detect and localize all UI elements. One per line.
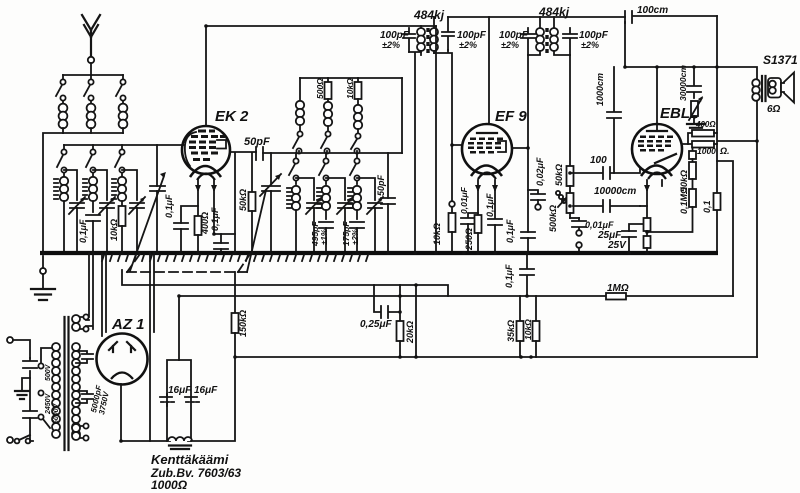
tube EBL1 envelope	[632, 124, 682, 174]
capacitor 0,1uF cathode	[164, 194, 188, 252]
resistor 10k antenna	[109, 206, 126, 252]
svg-text:250Ω: 250Ω	[464, 228, 474, 251]
svg-text:30000cm: 30000cm	[678, 65, 688, 101]
capacitor 0,01uF tone	[572, 218, 614, 252]
coil L5 with core	[83, 177, 97, 212]
resistor 400ohm fb	[682, 120, 717, 144]
EBL1 plate bar	[647, 130, 667, 132]
mains terminal top	[7, 337, 13, 343]
EBL1 grid dashes	[638, 136, 673, 152]
resistor 400ohm	[195, 206, 211, 252]
coil L9	[354, 99, 362, 133]
svg-text:6Ω: 6Ω	[767, 104, 781, 115]
capacitor mains 1	[23, 358, 37, 368]
resistor 500ohm	[315, 78, 332, 99]
switch S3a	[293, 131, 303, 153]
chassis bus	[40, 251, 718, 255]
svg-text:10000cm: 10000cm	[594, 186, 636, 197]
wire AZ1 right down	[150, 253, 154, 441]
svg-text:2450V: 2450V	[45, 392, 52, 415]
IF T1 primary coil	[417, 26, 425, 55]
wire AZ1 plate leads	[102, 253, 106, 336]
switch S4a	[289, 153, 299, 184]
capacitor mains 2	[23, 411, 37, 418]
svg-text:100: 100	[590, 155, 607, 166]
wire plate feed vertical	[435, 26, 437, 252]
svg-text:175pF: 175pF	[341, 221, 351, 246]
EBL1 cathode arc	[641, 166, 672, 177]
wire detector drop	[569, 55, 571, 166]
resistor 50k EBL1	[679, 159, 696, 192]
coil L6 with core	[112, 177, 126, 206]
resistor 50k EK2	[238, 153, 256, 252]
svg-text:0,02μF: 0,02μF	[535, 157, 545, 186]
EF9 pins	[478, 180, 495, 190]
svg-text:0,01μF: 0,01μF	[585, 220, 614, 230]
resistor 20k	[397, 285, 416, 357]
svg-text:10kΩ: 10kΩ	[523, 319, 533, 340]
svg-text:±2%: ±2%	[382, 40, 400, 50]
IF T2 primary coil	[528, 17, 544, 55]
svg-text:AZ 1: AZ 1	[111, 316, 145, 333]
mains terminal bottom	[7, 437, 13, 443]
EK2 inner grid frame	[185, 132, 196, 166]
capacitor 0,1uF EF9 cathode	[485, 190, 502, 252]
capacitor 0,1uF screen	[505, 219, 535, 252]
wire antenna top rail	[63, 74, 123, 76]
svg-text:500Ω: 500Ω	[315, 78, 325, 99]
gang line diagonal	[247, 190, 266, 272]
svg-text:0,25μF: 0,25μF	[360, 319, 392, 330]
svg-text:S1371: S1371	[763, 53, 798, 67]
wire EK2 output line	[230, 151, 256, 153]
bus hatching	[102, 255, 368, 261]
transformer filament winding top	[72, 314, 89, 331]
svg-text:150kΩ: 150kΩ	[238, 310, 248, 337]
wire EF9 grid cap drop	[488, 17, 490, 124]
coil L8	[324, 99, 332, 131]
capacitor 10000cm	[573, 186, 640, 212]
wire branch to trimmer 3	[122, 170, 137, 200]
capacitor 100cm	[625, 5, 717, 23]
EBL1 pins	[647, 180, 662, 190]
wire long line to osc section	[263, 152, 402, 154]
main tuning trimmer C7	[130, 145, 166, 271]
switch S3b	[321, 131, 331, 153]
speaker transformer core	[762, 76, 766, 101]
svg-text:0,1MΩ: 0,1MΩ	[679, 187, 689, 214]
capacitor 50pF osc	[376, 153, 395, 252]
wire line A	[122, 270, 448, 296]
wire plate to speaker vertical	[717, 161, 733, 296]
coil L10 with core	[287, 186, 300, 252]
svg-text:1000: 1000	[697, 146, 716, 156]
ground mains	[15, 378, 30, 399]
capacitor 100 coupling	[572, 155, 640, 179]
wire bottom rail to capbox	[121, 440, 167, 442]
AZ1 plates	[109, 342, 135, 352]
speaker transformer primary	[625, 67, 760, 101]
resistor 35k	[506, 296, 524, 357]
resistor 0,1 right	[702, 193, 721, 213]
svg-text:1000cm: 1000cm	[595, 73, 605, 106]
svg-text:0,1μF: 0,1μF	[210, 207, 220, 231]
EK2 top lead	[205, 26, 207, 126]
switch S1b	[84, 75, 94, 101]
EBL1 top lead	[656, 67, 658, 130]
electrolytic 16uF 1	[160, 385, 192, 406]
coil L3	[119, 101, 128, 133]
svg-text:0,1μF: 0,1μF	[504, 264, 514, 288]
svg-text:Kenttäkäämi: Kenttäkäämi	[151, 452, 229, 467]
IF T1 core	[426, 28, 429, 53]
ground EBL1	[687, 117, 705, 131]
EF9 plate bar	[477, 132, 497, 134]
wire gang node	[238, 271, 247, 273]
svg-text:400Ω: 400Ω	[200, 212, 210, 235]
EBL1 diode plate	[655, 154, 676, 163]
transformer HT secondary	[72, 343, 80, 438]
svg-text:10kΩ: 10kΩ	[432, 223, 442, 245]
glimmer box	[692, 148, 694, 152]
trimmer C2	[99, 197, 115, 252]
EF9 grid box	[498, 141, 506, 152]
coil L2	[87, 101, 96, 133]
EK2 anode box	[217, 140, 226, 149]
electrolytic 25uF	[597, 206, 647, 252]
capacitor 0,1uF below bus	[504, 253, 534, 296]
wire speaker bottom	[718, 101, 757, 357]
wire pot bottom to tone cap	[570, 217, 579, 219]
varistor	[689, 96, 703, 120]
svg-text:0,1μF: 0,1μF	[78, 219, 88, 243]
wire osc vertical	[234, 153, 236, 252]
transformer core	[65, 317, 69, 450]
osc trimmer capacitor	[260, 153, 281, 252]
capacitor 0,1uF antenna	[78, 215, 100, 252]
speaker secondary	[769, 81, 776, 88]
svg-text:35kΩ: 35kΩ	[506, 320, 516, 342]
capacitor 100pF T1 right	[442, 17, 487, 50]
svg-text:50kΩ: 50kΩ	[238, 189, 248, 211]
wire T1 secondary bottom to EF9 grid	[434, 50, 462, 145]
svg-text:1000Ω: 1000Ω	[151, 478, 188, 492]
capacitor 1000cm	[595, 67, 621, 173]
svg-text:495pF: 495pF	[310, 221, 320, 247]
svg-text:50kΩ: 50kΩ	[554, 164, 564, 186]
resistor 10k grid	[432, 201, 456, 252]
svg-text:0,1μF: 0,1μF	[164, 194, 174, 218]
IF T2 core	[545, 28, 548, 53]
svg-text:0,1μF: 0,1μF	[505, 219, 515, 243]
wire to ground leg	[43, 133, 63, 252]
svg-text:5000V: 5000V	[53, 402, 60, 424]
capacitor 5000pF a	[76, 351, 93, 363]
trimmer C4	[296, 178, 322, 252]
capacitor 0,01uF EF9	[459, 186, 478, 252]
svg-text:0,1μF: 0,1μF	[485, 193, 495, 217]
mains switch	[15, 435, 31, 443]
EBL1 cathode resistor 2	[644, 231, 651, 252]
wire line B	[179, 295, 733, 297]
coil L1	[59, 101, 68, 133]
switch S2c	[115, 145, 125, 177]
switch S2a	[57, 145, 67, 177]
capacitor 100pF T2 right	[563, 28, 609, 55]
resistor 10k below	[523, 296, 540, 357]
svg-text:Ω.: Ω.	[719, 146, 730, 156]
AZ1 filament	[111, 373, 133, 380]
switch S1c	[116, 75, 126, 101]
EK2 cathode arc	[190, 166, 221, 177]
svg-text:10kΩ: 10kΩ	[345, 78, 355, 99]
EK2 grid dashes	[189, 130, 225, 162]
wire row A rail	[300, 77, 402, 79]
transformer filament winding bottom	[72, 423, 89, 440]
resistor 0,1Mohm	[647, 187, 696, 232]
svg-text:400Ω: 400Ω	[695, 120, 716, 129]
antenna	[82, 15, 100, 75]
capacitor 0,02uF tone	[528, 157, 545, 210]
capacitor 0,25uF	[360, 285, 402, 330]
coil L4 with core	[54, 177, 68, 252]
svg-text:EF 9: EF 9	[495, 108, 527, 125]
trimmer C6	[357, 178, 383, 252]
wire AZ1 cathode down	[120, 384, 122, 441]
wire T2 primary drop	[527, 55, 529, 232]
svg-text:±2%: ±2%	[501, 40, 519, 50]
tube EF9 envelope	[462, 124, 512, 174]
wire filament leads up	[86, 253, 93, 329]
gang dashed bar	[127, 254, 250, 272]
coil L11 with core	[317, 186, 330, 219]
resistor 250ohm cathode	[464, 190, 482, 252]
resistor 10k top	[345, 78, 362, 99]
IF T1 secondary coil	[430, 17, 438, 53]
electrolytic 16uF 2	[185, 385, 218, 402]
wire branch to trimmer 1	[64, 170, 77, 200]
capacitor 100pF T2 left	[499, 28, 535, 55]
capacitor 50pF	[244, 136, 270, 160]
svg-text:484kj: 484kj	[413, 8, 445, 22]
wire plate rail top	[206, 25, 436, 27]
svg-text:10kΩ: 10kΩ	[109, 219, 119, 241]
potentiometer 500k	[548, 186, 574, 232]
svg-text:16μF: 16μF	[168, 385, 192, 396]
EBL1 cathode resistor 1	[644, 190, 651, 231]
IF T2 secondary coil	[550, 17, 570, 55]
svg-text:1MΩ: 1MΩ	[607, 283, 629, 294]
resistor 50k detector	[554, 164, 574, 186]
tube AZ1 envelope	[97, 334, 148, 385]
wire top rail to EF9	[448, 16, 625, 18]
EF9 grid dashes	[468, 138, 503, 154]
coil L7	[296, 78, 304, 131]
voltage selector	[38, 348, 53, 428]
trimmer C5	[326, 178, 353, 252]
wire EF9 plate to T2	[512, 147, 528, 149]
transformer primary winding	[52, 343, 60, 438]
electrolytic box left	[167, 360, 191, 441]
svg-text:50pF: 50pF	[376, 174, 386, 196]
wire 100cm riser right	[716, 16, 718, 253]
field coil	[168, 437, 192, 449]
trimmer C3	[129, 197, 145, 252]
capacitor 175pF	[341, 221, 364, 252]
tube EK2 envelope	[182, 126, 230, 174]
wire feed from line B	[178, 296, 180, 360]
wire riser right	[401, 78, 403, 153]
svg-text:±2%: ±2%	[351, 229, 360, 245]
EK2 cathode wiring	[181, 190, 198, 223]
EK2 pins	[198, 180, 214, 190]
svg-text:500V: 500V	[45, 363, 52, 381]
svg-text:±2%: ±2%	[581, 40, 599, 50]
capacitor 100pF T1 left	[380, 28, 415, 52]
wire AVC grid leak	[451, 145, 453, 200]
svg-text:20kΩ: 20kΩ	[405, 321, 415, 344]
trimmer C1	[69, 197, 85, 252]
wire 100cm riser left	[624, 22, 626, 67]
speaker body	[768, 78, 781, 98]
switch S2b	[86, 145, 96, 177]
coil L12 with core	[348, 186, 361, 219]
grid rail row2	[64, 144, 184, 146]
resistor 150k	[232, 272, 249, 357]
capacitor 495pF	[310, 221, 333, 252]
svg-text:100cm: 100cm	[637, 5, 668, 16]
ground main	[31, 256, 55, 300]
wire antenna bottom rail	[63, 132, 123, 134]
switch S3c	[351, 133, 361, 153]
wire branch to trimmer 2	[93, 170, 107, 200]
wire riser x416	[415, 285, 417, 357]
svg-text:50pF: 50pF	[244, 136, 270, 148]
svg-text:EK 2: EK 2	[215, 108, 249, 125]
wire capbox to line C riser	[191, 357, 235, 441]
switch S4c	[350, 153, 360, 184]
resistor 1M	[606, 283, 629, 300]
svg-text:±2%: ±2%	[459, 40, 477, 50]
svg-text:500kΩ: 500kΩ	[548, 205, 558, 232]
switch S1a	[56, 75, 66, 101]
wire line C	[235, 356, 757, 358]
svg-text:±1%: ±1%	[320, 229, 329, 245]
svg-text:0,1: 0,1	[702, 200, 712, 213]
capacitor 5000pF b	[76, 391, 93, 403]
EK2 osc grid pin wiring	[214, 190, 235, 234]
svg-text:25V: 25V	[607, 240, 627, 251]
wire mains vertical	[13, 340, 33, 441]
wire T1 bottom left to bus	[409, 52, 421, 252]
speaker cone	[781, 73, 794, 103]
switch S4b	[319, 153, 329, 184]
label 5000pF 3750V	[89, 383, 111, 415]
resistor 1000ohm plate	[688, 141, 730, 156]
capacitor 0,1uF osc	[210, 207, 228, 252]
capacitor 30000cm	[678, 65, 701, 101]
svg-text:16μF: 16μF	[194, 385, 218, 396]
EF9 cathode arc	[471, 166, 502, 177]
svg-text:0,01μF: 0,01μF	[459, 186, 469, 214]
